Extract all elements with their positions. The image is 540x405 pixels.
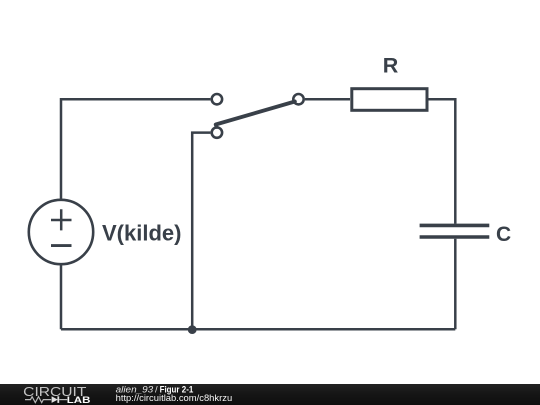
- logo diode: [52, 396, 58, 403]
- svg-text:R: R: [383, 54, 399, 78]
- voltage source minus sign: [51, 244, 72, 247]
- capacitor C bottom plate: [420, 235, 490, 239]
- wire capacitor bottom to rail: [454, 239, 457, 329]
- wire top rail from source to switch throw A: [61, 99, 210, 199]
- voltage source V1 circle: [29, 200, 93, 264]
- switch SW1 lever: [216, 102, 295, 127]
- voltage source plus sign: [51, 209, 72, 230]
- wire resistor to top-right corner down to capacitor: [428, 99, 455, 224]
- resistor R body: [352, 89, 427, 111]
- svg-text:LAB: LAB: [67, 395, 91, 405]
- svg-text:http://circuitlab.com/c8hkrzu: http://circuitlab.com/c8hkrzu: [116, 393, 233, 403]
- wire switch throw B to resistor: [305, 98, 350, 101]
- wire bottom rail: [61, 328, 455, 331]
- node junction dot on bottom rail: [188, 325, 197, 334]
- svg-text:C: C: [496, 223, 511, 246]
- logo resistor zigzag: [25, 397, 51, 403]
- wire switch common to bottom rail junction: [192, 133, 210, 330]
- switch SW1 throw terminal A (top-left): [212, 94, 222, 104]
- svg-text:V(kilde): V(kilde): [102, 220, 181, 245]
- capacitor C top plate: [420, 224, 490, 228]
- wire source bottom to bottom-left corner: [60, 265, 63, 329]
- switch SW1 throw terminal B (right): [293, 94, 303, 104]
- switch SW1 common terminal (bottom): [212, 127, 222, 137]
- footer bar: [0, 384, 540, 405]
